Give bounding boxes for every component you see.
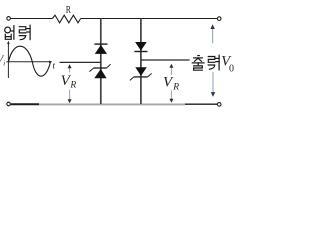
zener Z2 (cathode down, bent bar): [130, 67, 152, 80]
svg-text:R: R: [66, 5, 71, 16]
svg-text:R: R: [172, 82, 179, 92]
wire branch 1 vertical: [100, 19, 102, 105]
svg-text:i: i: [3, 60, 5, 68]
label VR left: [61, 73, 77, 90]
label 입력 (hand-drawn hangul "input"): [5, 25, 30, 40]
source waveform axes: [6, 41, 52, 78]
resistor R zigzag: [52, 15, 80, 23]
source sine wave: [9, 46, 51, 76]
terminal top-right: [217, 17, 221, 21]
svg-text:R: R: [69, 81, 76, 91]
wire bottom black right segment: [185, 103, 217, 105]
terminal bottom-left: [7, 102, 11, 106]
wire bottom black left segment: [11, 103, 39, 105]
arrow VR left (double-headed): [68, 64, 72, 103]
diode D1 (cathode up): [94, 44, 107, 54]
terminal top-left: [7, 17, 11, 21]
label VR right: [163, 75, 179, 93]
terminal bottom-right: [217, 103, 221, 107]
diode D2 (cathode down): [134, 42, 147, 52]
wire top-left segment: [11, 18, 53, 20]
label 출력 V0 (hand-drawn hangul "output"): [192, 55, 219, 70]
wire bottom gray segment: [39, 103, 185, 105]
label V0: [221, 54, 234, 75]
wire top-right segment: [81, 18, 217, 20]
svg-text:0: 0: [229, 63, 234, 74]
zener Z1 (cathode up, bent bar): [89, 64, 110, 78]
node reference line right VR: [141, 59, 190, 61]
arrow VR right (double-headed): [169, 64, 173, 103]
wire branch 2 vertical: [140, 19, 142, 105]
label Vi: [0, 54, 5, 68]
arrow output current up: [210, 24, 214, 43]
node reference line left VR: [60, 61, 101, 63]
arrow output current down: [211, 72, 215, 97]
